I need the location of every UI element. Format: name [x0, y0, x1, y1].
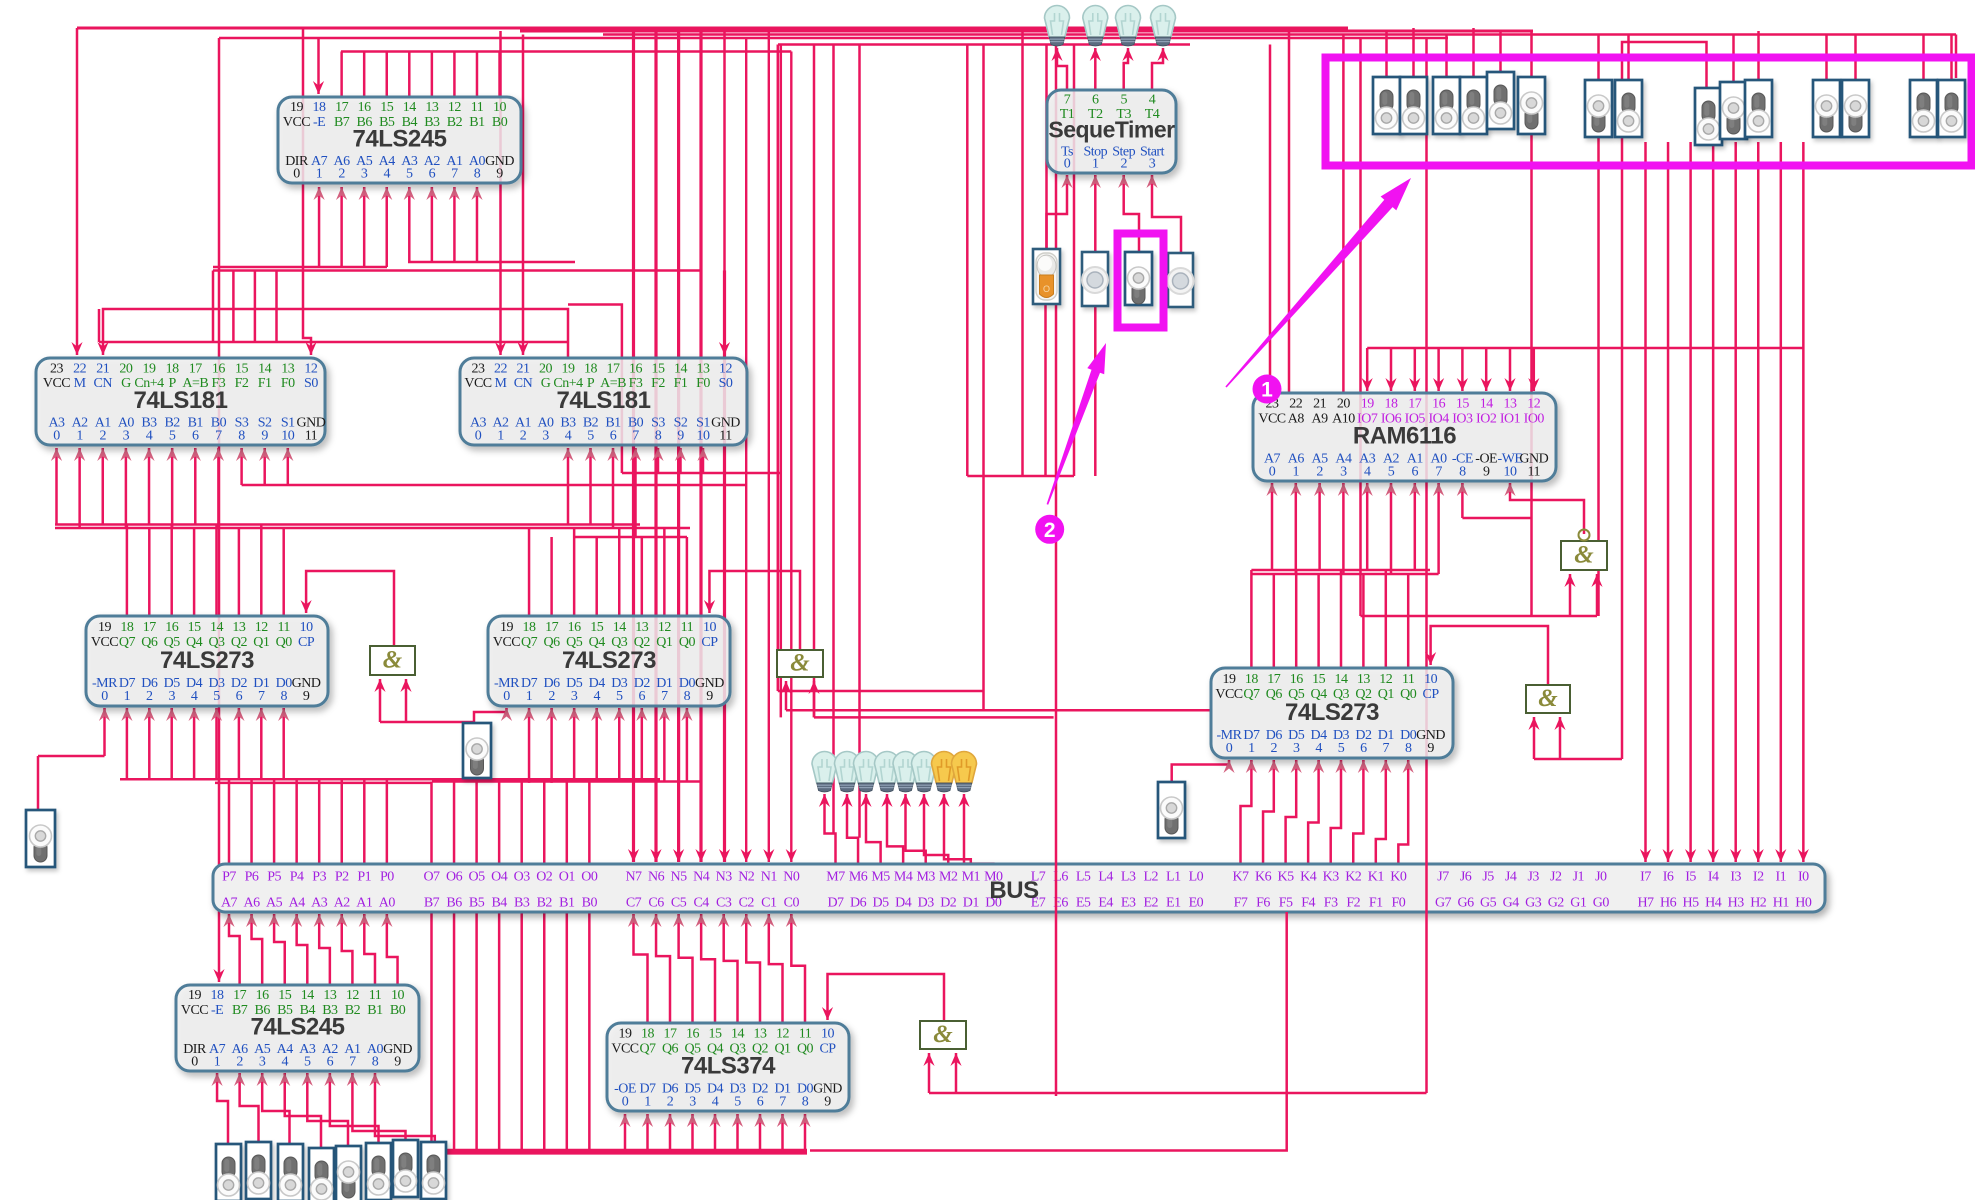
- chip 74LS273 U6: [488, 616, 730, 706]
- wire Q3 output 74LS273-3: [1340, 570, 1343, 668]
- svg-text:74LS273: 74LS273: [562, 647, 656, 674]
- svg-text:18: 18: [1245, 672, 1259, 687]
- wire T4 to bulb: [1152, 48, 1163, 90]
- wire horizontal 476: [967, 475, 1074, 478]
- svg-text:I1: I1: [1775, 870, 1786, 885]
- svg-text:0: 0: [475, 428, 482, 443]
- lamp M3: [893, 752, 918, 793]
- wire bus C5 from 74LS374 Q5: [679, 914, 693, 1023]
- wire -OE input 74LS374: [624, 1114, 627, 1152]
- wire G3 input a: [1533, 717, 1536, 759]
- wire A3 input 74LS245-1: [408, 187, 411, 262]
- wire NAND input a: [1569, 574, 1572, 616]
- and-gate G4: [920, 1021, 966, 1049]
- svg-text:18: 18: [584, 361, 598, 376]
- switch SWb: [463, 723, 491, 778]
- svg-text:10: 10: [821, 1027, 835, 1042]
- svg-text:L5: L5: [1076, 870, 1091, 885]
- svg-text:4: 4: [593, 689, 600, 704]
- svg-text:B2: B2: [537, 896, 553, 911]
- svg-text:IO1: IO1: [1500, 411, 1521, 426]
- wire bus A0 from 74LS245-2: [387, 914, 398, 985]
- wire A4 input RAM6116: [1342, 483, 1345, 574]
- wire bus C2 from 74LS374 Q2: [746, 914, 760, 1023]
- wire D6 input 74LS273-2: [550, 708, 553, 783]
- wire Stop input: [1094, 175, 1097, 252]
- svg-text:P5: P5: [267, 870, 281, 885]
- svg-text:20: 20: [1337, 397, 1351, 412]
- chip RAM6116 U7: [1253, 393, 1556, 481]
- wire top rail 6 B-bus: [341, 50, 791, 53]
- lamp T4: [1151, 5, 1176, 46]
- svg-text:16: 16: [568, 620, 582, 635]
- svg-text:VCC: VCC: [283, 115, 310, 130]
- svg-text:P7: P7: [222, 870, 236, 885]
- wire vertical 1022: [1021, 31, 1024, 476]
- wire bus A6 from 74LS245-2: [252, 914, 263, 985]
- svg-text:22: 22: [494, 361, 508, 376]
- wire AB input 3 74LS181-1: [125, 448, 128, 528]
- wire switch stub top-right 6: [1627, 35, 1630, 81]
- wire IO0 input RAM6116: [1533, 348, 1536, 391]
- wire Q1 output 74LS273-2: [663, 528, 666, 616]
- svg-text:C7: C7: [626, 896, 642, 911]
- svg-text:O: O: [1043, 284, 1050, 294]
- svg-text:13: 13: [232, 620, 246, 635]
- annotation arrow 2: [1047, 343, 1106, 505]
- svg-text:F3: F3: [1324, 896, 1338, 911]
- svg-text:F4: F4: [1301, 896, 1315, 911]
- wire Q2 output 74LS273-2: [641, 537, 644, 616]
- svg-text:7: 7: [1064, 93, 1071, 108]
- svg-text:10: 10: [1504, 464, 1518, 479]
- wire Q6 output 74LS273-2: [550, 537, 553, 616]
- svg-text:17: 17: [545, 620, 559, 635]
- svg-text:A2: A2: [334, 896, 351, 911]
- wire D0 input 74LS374: [804, 1114, 807, 1152]
- chip 74LS374 U10: [607, 1023, 849, 1111]
- wire Q5 output 74LS273-3: [1295, 570, 1298, 668]
- svg-text:8: 8: [802, 1094, 809, 1109]
- svg-text:M: M: [74, 376, 87, 391]
- wire B input 74LS181-2: [567, 448, 570, 525]
- wire G2 input rail a: [786, 709, 1212, 712]
- svg-text:A9: A9: [1312, 411, 1329, 426]
- svg-text:0: 0: [622, 1094, 629, 1109]
- svg-text:13: 13: [1357, 672, 1371, 687]
- wire top rail 4: [219, 37, 1448, 40]
- wire Q2 output 74LS273-1: [238, 528, 241, 616]
- svg-text:VCC: VCC: [43, 376, 70, 391]
- wire B1 stub 74LS245-1: [476, 52, 479, 98]
- switch Ts rocker: [1033, 249, 1060, 304]
- svg-text:10: 10: [281, 428, 295, 443]
- wire G3 input rail: [1534, 758, 1622, 761]
- wire D4 input 74LS273-1: [193, 708, 196, 779]
- svg-text:18: 18: [641, 1027, 655, 1042]
- wire band to bus P7: [228, 779, 231, 864]
- wire bus B6 drop: [453, 912, 456, 1152]
- svg-text:K5: K5: [1278, 870, 1295, 885]
- wire IO2 input RAM6116: [1485, 348, 1488, 391]
- wire data band 1: [120, 778, 660, 781]
- svg-text:O6: O6: [446, 870, 463, 885]
- svg-text:4: 4: [712, 1094, 719, 1109]
- wire vertical 1362: [1359, 38, 1362, 616]
- wire data band 3: [432, 780, 700, 783]
- switch input bit 2: [366, 1143, 391, 1200]
- svg-text:13: 13: [281, 361, 295, 376]
- svg-text:E2: E2: [1143, 896, 1158, 911]
- switch control 7: [1585, 80, 1612, 137]
- wire B3 stub 74LS245-1: [431, 52, 434, 98]
- svg-text:Q7: Q7: [521, 635, 538, 650]
- wire D6 input 74LS374: [669, 1114, 672, 1152]
- svg-text:J0: J0: [1595, 870, 1607, 885]
- svg-text:3: 3: [361, 166, 368, 181]
- svg-text:17: 17: [607, 361, 621, 376]
- wire A0 input 74LS245-1: [476, 187, 479, 262]
- svg-text:12: 12: [1527, 397, 1541, 412]
- wire IO7 input RAM6116: [1366, 348, 1369, 391]
- svg-text:19: 19: [562, 361, 576, 376]
- wire bus K2 to D2 74LS273-3: [1353, 760, 1363, 864]
- svg-text:2: 2: [100, 428, 107, 443]
- wire D3 input 74LS374: [736, 1114, 739, 1152]
- wire switch to A2 74LS245-2: [330, 1073, 379, 1143]
- wire G3 out to CP 74LS273-3: [1431, 626, 1548, 685]
- wire S input 74LS181-2: [702, 448, 705, 473]
- svg-text:6: 6: [757, 1094, 764, 1109]
- svg-text:C5: C5: [671, 896, 687, 911]
- wire -CE input: [1461, 483, 1464, 518]
- svg-text:7: 7: [1383, 741, 1390, 756]
- svg-text:1: 1: [644, 1094, 651, 1109]
- svg-text:19: 19: [143, 361, 157, 376]
- switch input bit 6: [246, 1142, 271, 1199]
- svg-text:D7: D7: [827, 896, 844, 911]
- wire B4 stub 74LS245-1: [408, 52, 411, 98]
- svg-text:12: 12: [346, 988, 360, 1003]
- wire M input 74LS181-1: [76, 28, 79, 355]
- svg-text:5: 5: [1388, 464, 1395, 479]
- wire D7 input 74LS273-2: [528, 708, 531, 783]
- svg-text:G3: G3: [1525, 896, 1542, 911]
- svg-text:0: 0: [53, 428, 60, 443]
- svg-text:F2: F2: [1346, 896, 1360, 911]
- wire bus B7 drop: [430, 912, 433, 1152]
- wire mid stub 99: [98, 309, 101, 342]
- wire D1 input 74LS273-1: [260, 708, 263, 779]
- svg-text:D6: D6: [850, 896, 867, 911]
- svg-text:G: G: [541, 376, 551, 391]
- svg-text:16: 16: [358, 100, 372, 115]
- svg-text:14: 14: [613, 620, 627, 635]
- svg-text:8: 8: [474, 166, 481, 181]
- wire vertical 984: [982, 45, 985, 711]
- wire top rail 3: [603, 33, 1956, 36]
- wire band to bus O0: [588, 782, 591, 865]
- wire switch to A3 74LS245-2: [307, 1073, 348, 1146]
- svg-text:VCC: VCC: [493, 635, 520, 650]
- svg-text:5: 5: [406, 166, 413, 181]
- svg-text:Q6: Q6: [141, 635, 158, 650]
- wire bus K1 to D1 74LS273-3: [1376, 760, 1386, 864]
- wire switch stub top-right 8: [1757, 31, 1760, 80]
- wire bus K5 to D5 74LS273-3: [1286, 760, 1297, 864]
- wire Q bundle 3: [573, 536, 687, 539]
- wire D0 input 74LS273-1: [282, 708, 285, 779]
- svg-text:8: 8: [1459, 464, 1466, 479]
- svg-text:8: 8: [684, 689, 691, 704]
- wire band to bus O6: [453, 782, 456, 865]
- wire band to bus O2: [543, 782, 546, 865]
- wire RAM addr bundle 2: [1251, 573, 1438, 576]
- wire band to bus O3: [520, 782, 523, 865]
- wire NAND out to -WE: [1510, 483, 1584, 534]
- wire G1 input a: [379, 679, 382, 722]
- wire IO6 input RAM6116: [1390, 348, 1393, 391]
- svg-text:20: 20: [539, 361, 553, 376]
- svg-text:3: 3: [1293, 741, 1300, 756]
- svg-text:P0: P0: [380, 870, 394, 885]
- wire bus B0 drop: [588, 912, 591, 1152]
- svg-text:E5: E5: [1076, 896, 1091, 911]
- svg-text:1: 1: [214, 1054, 221, 1069]
- wire D4 input 74LS273-2: [595, 708, 598, 782]
- highlight box control switches: [1326, 58, 1972, 166]
- svg-text:A8: A8: [1288, 411, 1305, 426]
- svg-text:19: 19: [500, 620, 514, 635]
- svg-text:Q0: Q0: [797, 1041, 814, 1056]
- svg-text:N6: N6: [648, 870, 665, 885]
- svg-text:M2: M2: [939, 870, 958, 885]
- svg-text:2: 2: [146, 689, 153, 704]
- lamp M5: [854, 752, 879, 793]
- wire Q4 output 74LS273-1: [193, 528, 196, 616]
- wire A7 input 74LS245-1: [318, 187, 321, 267]
- svg-text:&: &: [1538, 685, 1558, 712]
- svg-text:0: 0: [191, 1054, 198, 1069]
- wire bus C4 from 74LS374 Q4: [701, 914, 715, 1023]
- svg-text:IO2: IO2: [1476, 411, 1497, 426]
- wire A7 input RAM6116: [1271, 483, 1274, 570]
- svg-text:Q0: Q0: [1400, 687, 1417, 702]
- svg-text:1: 1: [76, 428, 83, 443]
- and-gate G6: [1526, 685, 1570, 713]
- svg-text:16: 16: [1290, 672, 1304, 687]
- svg-text:Q6: Q6: [662, 1041, 679, 1056]
- svg-text:I3: I3: [1730, 870, 1741, 885]
- svg-text:Q0: Q0: [679, 635, 696, 650]
- svg-text:3: 3: [689, 1094, 696, 1109]
- svg-text:P6: P6: [245, 870, 259, 885]
- svg-text:12: 12: [304, 361, 318, 376]
- svg-text:O7: O7: [423, 870, 440, 885]
- wire bus M2 to bulb: [924, 794, 948, 864]
- wire mid horizontal 342: [99, 341, 568, 344]
- wire D band a: [431, 1149, 808, 1152]
- wire band to bus P0: [386, 779, 389, 864]
- wire bus B4 drop: [498, 912, 501, 1152]
- svg-text:F1: F1: [1369, 896, 1383, 911]
- svg-text:B7: B7: [424, 896, 440, 911]
- svg-text:74LS245: 74LS245: [353, 125, 447, 152]
- svg-text:14: 14: [258, 361, 272, 376]
- wire D7 input 74LS273-1: [126, 708, 129, 779]
- wire Q7 output 74LS273-1: [126, 525, 129, 617]
- wire IO5 input RAM6116: [1414, 348, 1417, 391]
- svg-text:O0: O0: [581, 870, 598, 885]
- svg-text:0: 0: [1269, 464, 1276, 479]
- wire bus K7 to D7 74LS273-3: [1241, 760, 1252, 864]
- svg-text:11: 11: [1402, 672, 1415, 687]
- svg-text:1: 1: [316, 166, 323, 181]
- svg-text:Q7: Q7: [1243, 687, 1260, 702]
- wire Q6 output 74LS273-3: [1273, 574, 1276, 668]
- svg-text:C2: C2: [739, 896, 755, 911]
- svg-text:3: 3: [571, 689, 578, 704]
- svg-text:4: 4: [281, 1054, 288, 1069]
- svg-text:J7: J7: [1437, 870, 1449, 885]
- svg-text:K6: K6: [1255, 870, 1272, 885]
- svg-text:L0: L0: [1189, 870, 1204, 885]
- svg-text:L4: L4: [1098, 870, 1113, 885]
- switch input bit 1: [393, 1140, 418, 1197]
- svg-text:6: 6: [1360, 741, 1367, 756]
- wire Q0 output 74LS273-2: [686, 537, 689, 616]
- svg-text:16: 16: [629, 361, 643, 376]
- svg-text:18: 18: [166, 361, 180, 376]
- wire vertical 778: [777, 45, 780, 692]
- wire F band drop: [232, 271, 235, 343]
- wire B input 74LS181-2: [612, 448, 615, 528]
- svg-text:15: 15: [590, 620, 604, 635]
- wire D5 input 74LS273-2: [573, 708, 576, 782]
- chip 74LS245 U9: [176, 985, 419, 1071]
- wire switch to bus I5: [1689, 142, 1692, 862]
- wire Q7 output 74LS273-3: [1250, 570, 1253, 668]
- svg-text:&: &: [1574, 542, 1594, 569]
- svg-text:P1: P1: [357, 870, 371, 885]
- chip 74LS273 U5: [86, 616, 328, 706]
- svg-text:Q1: Q1: [774, 1041, 791, 1056]
- wire G4 input rail: [929, 1092, 1427, 1095]
- svg-text:22: 22: [73, 361, 87, 376]
- svg-text:17: 17: [233, 988, 247, 1003]
- wire switch to A5 74LS245-2: [262, 1073, 289, 1144]
- wire bus C6 from 74LS374 Q6: [656, 914, 670, 1023]
- lamp M0: [952, 752, 977, 793]
- wire vertical 859: [858, 45, 861, 838]
- svg-text:H1: H1: [1773, 896, 1790, 911]
- wire M input 74LS181-2: [499, 31, 502, 355]
- svg-text:1: 1: [124, 689, 131, 704]
- svg-text:6: 6: [192, 428, 199, 443]
- wire bus A5 from 74LS245-2: [274, 914, 285, 985]
- svg-text:2: 2: [520, 428, 527, 443]
- svg-text:K4: K4: [1300, 870, 1317, 885]
- annotation circle 2: [1035, 515, 1064, 544]
- svg-text:6: 6: [1092, 93, 1099, 108]
- wire F to bus N3: [723, 271, 726, 863]
- svg-text:G1: G1: [1570, 896, 1587, 911]
- chip SequeTimer U2: [1047, 90, 1176, 173]
- svg-text:14: 14: [674, 361, 688, 376]
- switch control 15: [1938, 80, 1965, 137]
- svg-text:D5: D5: [873, 896, 890, 911]
- svg-text:VCC: VCC: [181, 1003, 208, 1018]
- svg-text:0: 0: [1226, 741, 1233, 756]
- svg-text:74LS273: 74LS273: [1285, 699, 1379, 726]
- wire band to bus P1: [363, 779, 366, 864]
- wire NAND input b: [1596, 574, 1599, 616]
- svg-text:9: 9: [394, 1054, 401, 1069]
- lamp T1: [1045, 5, 1070, 46]
- svg-text:74LS181: 74LS181: [557, 387, 651, 414]
- svg-text:F0: F0: [281, 376, 295, 391]
- wire Q4 output 74LS273-2: [595, 537, 598, 616]
- switch control 2: [1400, 77, 1427, 134]
- svg-text:B1: B1: [469, 115, 485, 130]
- svg-text:J2: J2: [1550, 870, 1562, 885]
- svg-text:9: 9: [1483, 464, 1490, 479]
- wire T3 to bulb: [1124, 48, 1128, 90]
- svg-text:I7: I7: [1640, 870, 1651, 885]
- svg-text:10: 10: [703, 620, 717, 635]
- svg-text:10: 10: [697, 428, 711, 443]
- wire top rail 3 end stub: [1955, 35, 1958, 79]
- wire IO3 input RAM6116: [1461, 348, 1464, 391]
- wire switch stub top-right 10: [1854, 35, 1857, 81]
- wire B5 stub 74LS245-1: [385, 52, 388, 98]
- svg-text:F2: F2: [651, 376, 665, 391]
- svg-text:I5: I5: [1685, 870, 1696, 885]
- svg-text:CP: CP: [1423, 687, 1440, 702]
- svg-text:5: 5: [169, 428, 176, 443]
- wire bus K4 to D4 74LS273-3: [1308, 760, 1318, 864]
- wire bus B3 drop: [520, 912, 523, 1152]
- wire G1 input rail: [380, 721, 474, 724]
- svg-text:S0: S0: [719, 376, 733, 391]
- annotation circle 1: [1253, 375, 1282, 404]
- wire band to bus P2: [341, 779, 344, 864]
- wire switch stub top-right 7: [1732, 35, 1735, 83]
- svg-text:10: 10: [493, 100, 507, 115]
- wire Q5 output 74LS273-2: [573, 528, 576, 616]
- wire Q7 output 74LS273-2: [528, 528, 531, 616]
- svg-text:0: 0: [503, 689, 510, 704]
- svg-text:13: 13: [754, 1027, 768, 1042]
- wire band to bus P3: [318, 779, 321, 864]
- wire MR 74LS273-3: [1172, 760, 1229, 782]
- wire bus C3 from 74LS374 Q3: [724, 914, 738, 1023]
- wire switch SWa stub: [37, 756, 40, 810]
- svg-text:14: 14: [1480, 397, 1494, 412]
- wire F to bus N2: [745, 38, 747, 862]
- svg-text:F6: F6: [1256, 896, 1270, 911]
- svg-text:A6: A6: [243, 896, 260, 911]
- wire G2 input a: [785, 681, 788, 710]
- wire D2 input 74LS273-2: [641, 708, 644, 782]
- wire bus K6 to D6 74LS273-3: [1263, 760, 1274, 864]
- wire band to bus O5: [475, 782, 478, 865]
- wire F to bus N5: [677, 31, 680, 862]
- svg-text:18: 18: [1385, 397, 1399, 412]
- svg-text:&: &: [933, 1021, 953, 1048]
- svg-text:J5: J5: [1482, 870, 1494, 885]
- lamp M2: [912, 752, 937, 793]
